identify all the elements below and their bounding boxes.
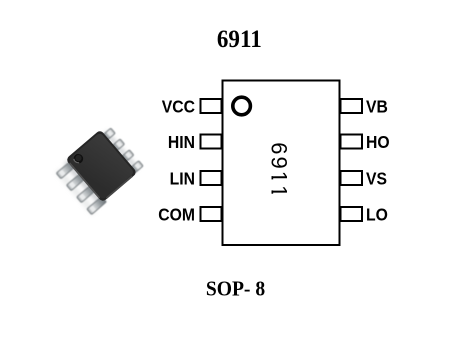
pin 8 stub VB (341, 99, 363, 113)
pin 7 stub HO (341, 135, 363, 149)
chip photo SOP-8 package (53, 124, 145, 215)
svg-text:VCC: VCC (162, 97, 195, 117)
vertical part number 6911 inside outline (267, 142, 292, 197)
svg-text:HIN: HIN (168, 132, 195, 152)
chip photo pin shadows (55, 128, 143, 215)
svg-text:6: 6 (267, 142, 292, 154)
svg-text:LIN: LIN (170, 169, 195, 189)
chip photo pin-1 dimple (72, 152, 86, 166)
svg-text:SOP- 8: SOP- 8 (206, 278, 265, 301)
svg-text:9: 9 (267, 157, 292, 169)
pin 2 stub HIN (201, 135, 222, 149)
svg-text:VS: VS (366, 169, 387, 189)
pin 3 stub LIN (201, 171, 222, 185)
svg-text:1: 1 (267, 171, 292, 183)
svg-text:VB: VB (366, 97, 388, 117)
chip photo pin leads upper-right side (101, 128, 143, 174)
IC outline rectangle (223, 81, 340, 246)
pin 4 stub COM (201, 207, 222, 221)
pin 6 stub VS (341, 171, 363, 185)
svg-text:1: 1 (267, 185, 292, 197)
svg-text:HO: HO (366, 132, 390, 152)
chip photo package body (65, 129, 137, 202)
svg-text:COM: COM (158, 205, 195, 225)
svg-text:6911: 6911 (217, 25, 262, 53)
pin-1 indicator circle (233, 97, 251, 115)
pin 5 stub LO (341, 207, 363, 221)
chip photo pin leads lower-left side (56, 161, 106, 215)
svg-text:LO: LO (366, 205, 388, 225)
pin 1 stub VCC (201, 99, 222, 113)
